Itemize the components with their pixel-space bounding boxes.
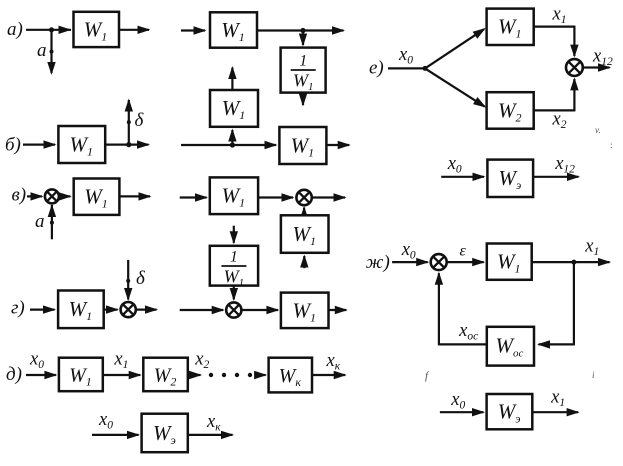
wire output v-left (119, 192, 151, 200)
node dot on branch b-left (127, 120, 131, 124)
svg-text:е): е) (369, 57, 384, 78)
wire W2 out row d (188, 371, 202, 379)
wire output e equiv (533, 173, 580, 181)
wire input b-left (23, 140, 57, 148)
wire input zh equiv (440, 408, 485, 416)
block 1/W1 row g mid (210, 246, 258, 289)
svg-text:а: а (37, 40, 47, 61)
wire output zh equiv (532, 408, 579, 416)
summing junction row zh (431, 254, 447, 270)
svg-text:д): д) (6, 364, 22, 385)
block W1 right b-right (279, 127, 326, 164)
wire feedback left-up into sum row zh (435, 272, 487, 346)
wire feedback down-left row zh (537, 262, 575, 349)
wire input e (388, 67, 425, 69)
wire input zh (392, 258, 429, 266)
wire W1 lower up into sum v-right (300, 206, 308, 219)
wire output b-left (105, 140, 150, 148)
summing junction row e (566, 59, 583, 76)
wire output row zh (532, 258, 611, 266)
wire into Wk row d (254, 371, 267, 379)
node dot on branch v-left (50, 221, 54, 225)
node ellipsis dots row d (209, 373, 213, 377)
wire branch up into W1 (228, 129, 236, 146)
block W1 row d (59, 358, 103, 392)
wire W1 to W2 row d (103, 371, 142, 379)
summing junction v-left (45, 189, 59, 203)
node branch point b-left (126, 142, 131, 147)
svg-text:а: а (35, 211, 45, 232)
svg-text:v.: v. (595, 125, 601, 135)
wire sum to W1 row zh (447, 258, 486, 266)
node branch point a-right (300, 28, 305, 33)
wire branch down a-left (47, 30, 55, 75)
svg-text:δ: δ (136, 268, 146, 289)
block W1 row a left (74, 12, 120, 47)
wire main b-right (181, 141, 278, 149)
node dot on branch g-left (126, 279, 130, 283)
block W1 lower v-right (281, 215, 329, 253)
svg-text:1: 1 (299, 53, 307, 70)
wire input e equiv (441, 173, 485, 181)
block W1 row zh (487, 244, 532, 280)
block W1 row a right (210, 12, 257, 47)
wire W1 to sum row e (534, 26, 579, 58)
node dot on branch a-left (50, 50, 54, 54)
wire output a-right (257, 26, 345, 34)
wire stub below 1/W1 (299, 93, 307, 107)
wire input v-right (180, 193, 208, 201)
svg-text:г): г) (11, 298, 25, 319)
block We row d equiv (142, 414, 188, 453)
svg-text:в): в) (12, 185, 27, 206)
wire input g-left (30, 305, 56, 313)
block W1 row v right (210, 177, 258, 214)
wire input v-left (27, 192, 44, 200)
block We row zh equiv (487, 394, 533, 429)
wire branch up into sum v-left (48, 204, 56, 239)
node branch point e (423, 66, 428, 71)
wire output row d (312, 371, 347, 379)
wire stub below W1 lower v-right (300, 255, 308, 269)
svg-text:1: 1 (230, 249, 238, 266)
wire sum to W1 g-mid (241, 306, 279, 314)
block 1/W1 row a right (281, 48, 326, 93)
svg-text:б): б) (5, 135, 21, 156)
block Woc row zh (487, 327, 534, 366)
node branch point b-right (230, 142, 235, 147)
block W1 row b left (58, 126, 105, 163)
summing junction v-right (296, 190, 311, 205)
wire W1 to sum v-right (258, 193, 294, 201)
summing junction g-mid (226, 302, 241, 317)
wire 1/W1 to sum g-mid (230, 286, 238, 301)
wire diagonal down to W2 row e (425, 68, 486, 107)
block W2 row e (487, 92, 534, 129)
wire input a-right (181, 26, 207, 34)
wire W1 to sum g-left (104, 305, 119, 313)
wire branch up b-left (125, 99, 133, 145)
wire diagonal up to W1 row e (425, 28, 486, 68)
block Wk row d (269, 358, 312, 393)
svg-text:δ: δ (135, 110, 145, 131)
wire output b-right (326, 141, 350, 149)
wire output d equiv (188, 431, 234, 439)
wire sum to W1 v-left (59, 192, 72, 200)
wire input d (26, 371, 57, 379)
wire output v-right (312, 193, 347, 201)
wire input a-left with junction (26, 26, 72, 34)
wire output row e (583, 63, 611, 71)
wire stub into 1/W1 g-mid (230, 226, 238, 245)
svg-text::: : (610, 140, 613, 150)
node branch point a-left (49, 27, 54, 32)
block W1 row e (487, 9, 534, 45)
wire W2 to sum row e (534, 77, 579, 111)
block We row e equiv (487, 160, 533, 197)
wire branch down into sum g-left (124, 260, 132, 301)
block W1 row v left (74, 179, 120, 215)
svg-text:ε: ε (460, 243, 467, 260)
summing junction g-left (121, 302, 136, 317)
block W2 row d (143, 358, 188, 392)
wire input g-mid (180, 306, 225, 314)
wire input d equiv (92, 431, 140, 439)
wire branch down into 1/W1 (299, 31, 307, 47)
block W1 upper b-right (210, 90, 258, 127)
block W1 row g left (58, 291, 104, 329)
wire output g-left (136, 305, 158, 313)
wire stub above W1 upper (228, 66, 236, 90)
node branch point row zh (571, 260, 576, 265)
svg-text:ж): ж) (366, 252, 390, 273)
block W1 row g mid (281, 293, 329, 329)
svg-text:а): а) (7, 19, 23, 40)
wire output g-mid (329, 306, 348, 314)
wire output a-left (119, 26, 151, 34)
